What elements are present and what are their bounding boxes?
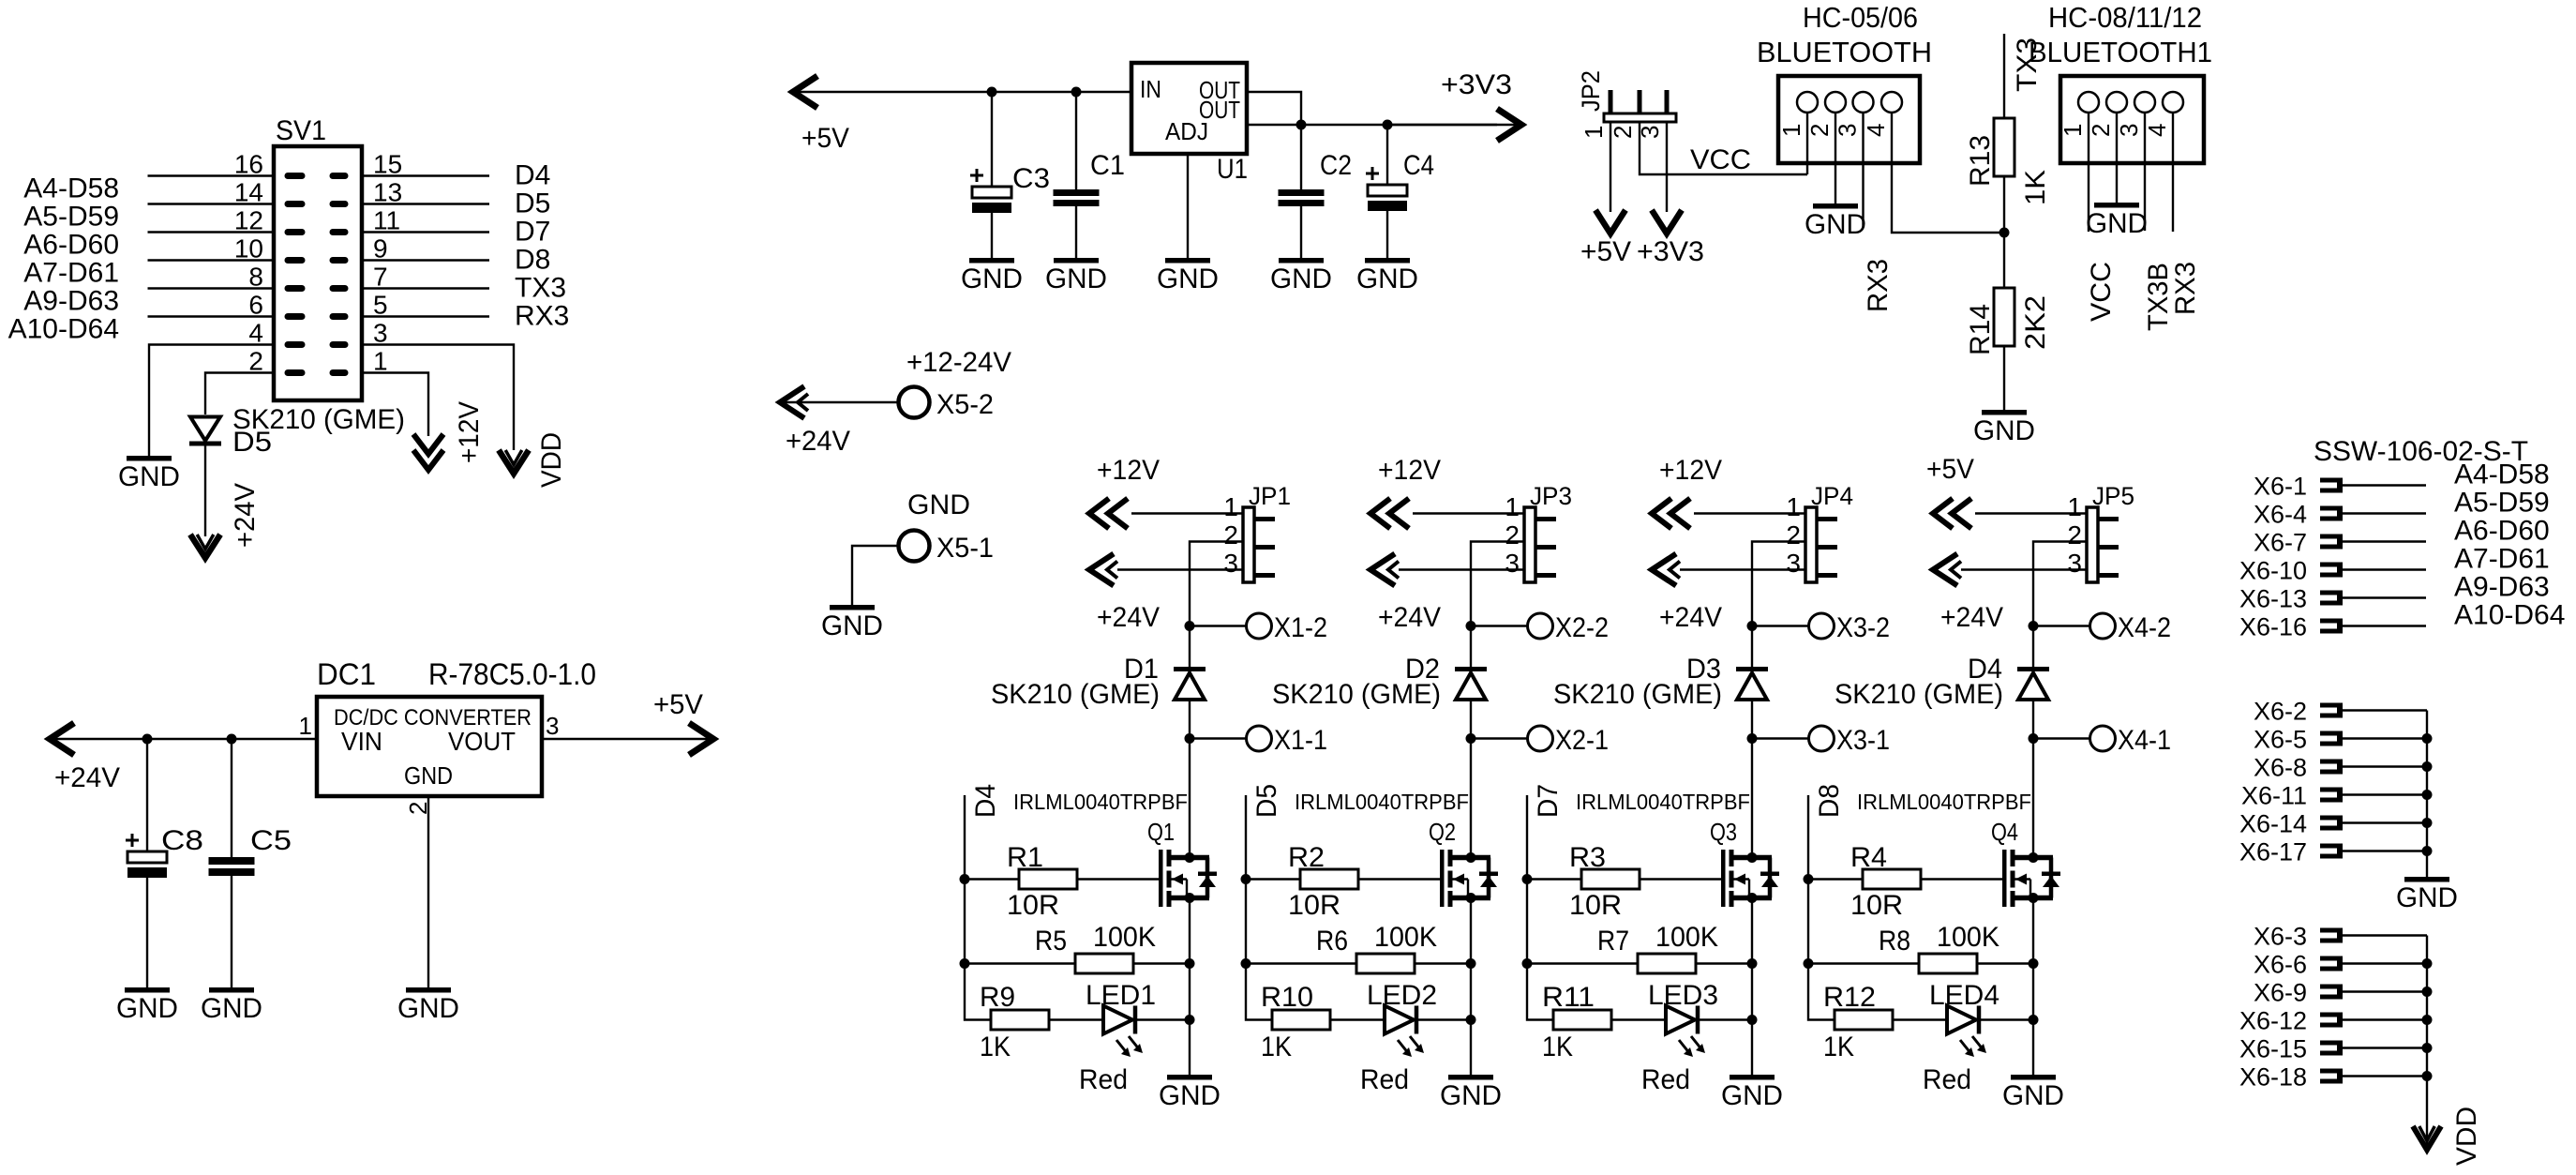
wire X6-15 (2343, 1047, 2427, 1048)
svg-text:10R: 10R (1288, 890, 1340, 921)
wire JP1 pin 3 to +24V (1117, 568, 1243, 570)
svg-text:X6-9: X6-9 (2254, 979, 2307, 1007)
wire X3-1 to Q3 drain (1751, 739, 1753, 858)
node junction X1-1 (1185, 733, 1195, 744)
node junction X6-18 on VDD bus (2422, 1071, 2433, 1081)
wire X6-14 (2343, 821, 2427, 823)
SV1 pin 8 pad (285, 285, 306, 292)
svg-text:A9-D63: A9-D63 (23, 286, 119, 317)
BLUETOOTH pin 1 circle (1797, 92, 1818, 113)
svg-text:LED3: LED3 (1648, 980, 1718, 1011)
svg-text:1K: 1K (1261, 1032, 1292, 1062)
BLUETOOTH pin 4 circle (1881, 92, 1902, 113)
wire R6 to source column (1415, 962, 1471, 964)
svg-text:X6-5: X6-5 (2254, 726, 2307, 754)
node junction LED4/source (2029, 1015, 2039, 1025)
jumper JP1 body (1243, 507, 1254, 582)
resistor R7 (1638, 954, 1696, 973)
wire SV1 pin 6 (148, 315, 275, 317)
wire X6-2 (2343, 709, 2427, 711)
svg-text:12: 12 (234, 206, 263, 235)
power arrow +24V (channel 1) (1089, 554, 1114, 586)
power arrow +24V (below D5) (190, 535, 220, 558)
wire gate bus to R5 (965, 962, 1075, 964)
wire JP1 pin 1 to +12V (1131, 512, 1243, 514)
svg-text:13: 13 (373, 178, 402, 207)
diode D5 (190, 417, 220, 442)
wire X1-2 to diode D1 (1189, 626, 1191, 669)
svg-text:GND: GND (1805, 209, 1866, 240)
svg-text:GND: GND (2002, 1080, 2064, 1111)
resistor R4 (1863, 869, 1921, 889)
wire BLUETOOTH1 pin 3 stub TX3B (2144, 113, 2146, 231)
wire gate bus to R1 (965, 878, 1019, 880)
node junction X6-14 on GND bus (2422, 818, 2433, 828)
power arrow +24V (channel 4) (1933, 554, 1957, 586)
wire to terminal X4-2 (2033, 625, 2090, 626)
power arrow +3V3 (JP2) (1652, 210, 1682, 233)
svg-text:+24V: +24V (786, 426, 850, 457)
svg-text:+12-24V: +12-24V (906, 347, 1011, 378)
svg-text:3: 3 (2067, 549, 2082, 578)
ground (C1) (1054, 258, 1099, 264)
connector pin X6-8 (2320, 760, 2340, 764)
svg-text:X6-18: X6-18 (2239, 1063, 2307, 1092)
svg-text:VIN: VIN (341, 727, 382, 756)
svg-text:GND: GND (1159, 1080, 1221, 1111)
svg-text:Q3: Q3 (1710, 818, 1737, 846)
LED LED3 (1666, 1006, 1695, 1034)
svg-text:X6-17: X6-17 (2239, 838, 2307, 866)
node junction gate/R8 (1804, 958, 1814, 969)
terminal X4-2 circle (2090, 613, 2116, 639)
connector BLUETOOTH1 body (2060, 76, 2204, 163)
wire gate bus to R4 (1808, 878, 1863, 880)
wire to terminal X4-1 (2033, 737, 2090, 739)
ground (X5-1) (830, 605, 875, 610)
svg-text:SK210 (GME): SK210 (GME) (1553, 679, 1722, 710)
jumper JP5 pin 1 stub (2098, 517, 2119, 521)
svg-text:X6-2: X6-2 (2254, 698, 2307, 726)
svg-text:ADJ: ADJ (1165, 117, 1208, 145)
SV1 pin 1 pad (330, 369, 349, 376)
svg-text:+3V3: +3V3 (1441, 69, 1512, 100)
wire Q2 source down (1470, 898, 1472, 1076)
wire X6-18 (2343, 1075, 2427, 1077)
wire R3 to Q3 gate (1640, 878, 1721, 880)
node junction R6/source (1466, 958, 1476, 969)
svg-text:GND: GND (1270, 264, 1332, 294)
svg-text:8: 8 (248, 263, 263, 292)
SV1 pin 16 pad (285, 173, 306, 179)
diode D2 (1455, 667, 1487, 671)
svg-text:+24V: +24V (230, 483, 261, 548)
wire Q3 source down (1751, 898, 1753, 1076)
wire to terminal X3-1 (1752, 737, 1809, 739)
ground (BLUETOOTH pin 2) (1813, 203, 1858, 209)
power arrow +5V (JP2) (1595, 210, 1625, 233)
resistor R13 (1994, 118, 2014, 176)
wire to terminal X3-2 (1752, 625, 1809, 626)
svg-text:GND: GND (397, 993, 459, 1024)
svg-text:+3V3: +3V3 (1637, 236, 1704, 267)
terminal X5-2 arrow +24V (780, 386, 804, 418)
wire BLUETOOTH1 pin 2 to ground (2116, 113, 2118, 203)
svg-text:6: 6 (248, 291, 263, 320)
wire X6-13 (2343, 596, 2426, 598)
svg-text:2: 2 (1609, 126, 1637, 139)
resistor R12 (1835, 1010, 1893, 1030)
svg-text:R2: R2 (1288, 842, 1325, 873)
capacitor C3 (polarized) (991, 92, 993, 187)
svg-text:A7-D61: A7-D61 (2454, 544, 2550, 575)
svg-text:D7: D7 (515, 217, 550, 248)
wire LED3 cathode to source column (1700, 1018, 1752, 1020)
wire LED1 cathode to source column (1137, 1018, 1190, 1020)
node junction gate/R6 (1241, 958, 1251, 969)
svg-text:X3-1: X3-1 (1836, 725, 1890, 756)
wire R10 to LED2 (1330, 1018, 1385, 1020)
node junction at C8 (142, 734, 153, 745)
node junction at C3 (987, 87, 997, 98)
connector pin X6-18 (2320, 1069, 2340, 1074)
wire X6-3 (2343, 934, 2427, 936)
svg-text:X6-8: X6-8 (2254, 754, 2307, 782)
svg-text:Q4: Q4 (1991, 818, 2018, 846)
svg-text:VCC: VCC (1690, 144, 1751, 175)
connector pin X6-17 (2320, 844, 2340, 849)
svg-text:+12V: +12V (1378, 455, 1441, 486)
svg-text:X6-15: X6-15 (2239, 1035, 2307, 1063)
wire +24V to DC1 VIN (50, 738, 317, 740)
SV1 pin 4 pad (285, 341, 306, 348)
terminal X1-2 circle (1247, 613, 1272, 639)
capacitor C8 (polarized) (146, 739, 148, 851)
jumper JP2 pin 1 stub (1609, 90, 1613, 113)
wire SV1 pin 3 to VDD (362, 345, 514, 451)
svg-text:15: 15 (373, 150, 402, 179)
BLUETOOTH1 pin 4 circle (2163, 92, 2183, 113)
wire SV1 pin 2 to diode D5 (205, 373, 274, 415)
jumper JP2 pin 3 stub (1665, 90, 1670, 113)
wire X6-6 (2343, 962, 2427, 964)
svg-text:GND: GND (907, 490, 970, 520)
wire X6-12 (2343, 1018, 2427, 1020)
diode D1 (1174, 667, 1206, 671)
node junction X6-9 on VDD bus (2422, 987, 2433, 997)
svg-text:C2: C2 (1320, 150, 1352, 181)
svg-text:IRLML0040TRPBF: IRLML0040TRPBF (1295, 790, 1469, 814)
wire JP5 pin 1 to +5V (1975, 512, 2087, 514)
svg-text:+12V: +12V (454, 401, 485, 463)
connector pin X6-6 (2320, 957, 2340, 961)
LED LED2 emission arrows (1398, 1040, 1409, 1054)
svg-text:11: 11 (373, 206, 400, 235)
wire JP1 pin 2 down (1190, 542, 1243, 626)
svg-text:R9: R9 (980, 982, 1015, 1013)
svg-text:R1: R1 (1007, 842, 1043, 873)
wire SV1 pin 13 (362, 203, 489, 204)
node junction R8/source (2029, 958, 2039, 969)
wire SV1 pin 7 (362, 287, 489, 289)
node junction at C4 (1383, 120, 1393, 130)
svg-text:X4-1: X4-1 (2118, 725, 2171, 756)
svg-text:D7: D7 (1533, 784, 1564, 818)
svg-text:GND: GND (2396, 882, 2458, 913)
svg-text:R12: R12 (1823, 982, 1876, 1013)
svg-text:10R: 10R (1007, 890, 1059, 921)
BLUETOOTH1 pin 2 circle (2106, 92, 2127, 113)
transistor Q2 (n-channel MOSFET) (1440, 850, 1445, 907)
wire R13 to R14 (2003, 176, 2005, 288)
resistor R11 (1553, 1010, 1611, 1030)
wire BLUETOOTH pin 2 to ground (1835, 113, 1836, 203)
jumper JP5 pin 3 stub (2098, 573, 2119, 578)
jumper JP4 pin 1 stub (1817, 517, 1837, 521)
svg-text:GND: GND (1721, 1080, 1783, 1111)
svg-text:GND: GND (2086, 208, 2148, 239)
node junction X2-2 (1466, 621, 1476, 631)
wire LED2 cathode to source column (1418, 1018, 1471, 1020)
power arrow +5V (DC1 output) (689, 723, 713, 755)
ground (SV1 pin 4) (127, 456, 172, 461)
net stub D4 (gate bus) (964, 795, 966, 964)
svg-text:1: 1 (373, 347, 388, 376)
svg-text:3: 3 (1223, 549, 1238, 578)
connector pin X6-2 (2320, 703, 2340, 708)
jumper JP1 pin 1 stub (1254, 517, 1275, 521)
ground (R14) (1982, 410, 2027, 415)
node junction gate/R2 (1241, 874, 1251, 884)
wire R14 to ground (2003, 345, 2005, 410)
terminal X2-1 circle (1528, 726, 1553, 751)
svg-text:VCC: VCC (2086, 262, 2117, 322)
resistor R14 (1994, 288, 2014, 346)
svg-text:1: 1 (1223, 492, 1238, 521)
svg-text:X6-1: X6-1 (2254, 473, 2307, 501)
svg-text:A5-D59: A5-D59 (23, 202, 119, 233)
wire gate bus corner to R9 (965, 964, 991, 1020)
diode D3 (1736, 667, 1768, 671)
svg-text:SK210 (GME): SK210 (GME) (1272, 679, 1441, 710)
svg-text:1: 1 (299, 712, 312, 740)
power arrow +3V3 (1497, 109, 1521, 141)
jumper JP4 pin 2 stub (1817, 545, 1837, 550)
svg-text:X6-16: X6-16 (2239, 613, 2307, 641)
svg-text:2: 2 (2067, 520, 2082, 550)
ground (channel 3) (1730, 1075, 1775, 1080)
svg-text:1: 1 (2059, 124, 2087, 137)
svg-text:10R: 10R (1850, 890, 1903, 921)
connector SV1 body (274, 146, 362, 400)
wire Q4 source down (2032, 898, 2034, 1076)
connector pin X6-4 (2320, 506, 2340, 511)
node junction X6-6 on VDD bus (2422, 958, 2433, 969)
node junction X2-1 (1466, 733, 1476, 744)
node junction RX of divider (1999, 228, 2010, 238)
svg-text:RX3: RX3 (515, 301, 569, 332)
svg-text:A4-D58: A4-D58 (23, 173, 119, 204)
wire SV1 pin 12 (148, 231, 275, 233)
svg-text:X3-2: X3-2 (1836, 612, 1890, 643)
wire X6-17 (2343, 850, 2427, 851)
wire JP2 pin 1 to +5V (1610, 122, 1611, 212)
ground (C8) (125, 987, 170, 993)
svg-text:D5: D5 (1251, 784, 1282, 818)
SV1 pin 2 pad (285, 369, 306, 376)
transistor Q3 (n-channel MOSFET) (1721, 850, 1726, 907)
svg-text:2: 2 (2087, 124, 2115, 137)
wire JP4 pin 3 to +24V (1680, 568, 1805, 570)
wire X6-9 (2343, 990, 2427, 992)
svg-text:R3: R3 (1569, 842, 1606, 873)
svg-text:VOUT: VOUT (448, 727, 516, 756)
node junction X4-2 (2029, 621, 2039, 631)
svg-text:HC-05/06: HC-05/06 (1803, 1, 1918, 34)
wire R4 to Q4 gate (1921, 878, 2002, 880)
power arrow +24V (channel 3) (1652, 554, 1676, 586)
node junction R5/source (1185, 958, 1195, 969)
ground (X6 GND bus) (2404, 877, 2449, 882)
svg-text:1K: 1K (2020, 170, 2051, 205)
svg-text:+5V: +5V (653, 689, 703, 720)
SV1 pin 12 pad (285, 229, 306, 235)
svg-text:100K: 100K (1655, 922, 1718, 953)
svg-text:D5: D5 (515, 188, 550, 219)
svg-text:LED1: LED1 (1086, 980, 1156, 1011)
terminal X5-1 circle (899, 531, 930, 562)
svg-text:X2-1: X2-1 (1555, 725, 1609, 756)
svg-text:X5-2: X5-2 (936, 389, 994, 420)
connector pin X6-13 (2320, 591, 2340, 595)
LED LED3 emission arrows (1679, 1040, 1690, 1054)
wire diode D2 to X2-1 (1470, 700, 1472, 739)
svg-text:3: 3 (1505, 549, 1520, 578)
power arrow +12V (channel 2, double chevron) (1370, 499, 1390, 529)
svg-text:X6-10: X6-10 (2239, 557, 2307, 585)
node junction gate/R7 (1522, 958, 1533, 969)
wire SV1 pin 15 (362, 174, 489, 176)
svg-text:X6-6: X6-6 (2254, 951, 2307, 979)
terminal X4-1 circle (2090, 726, 2116, 751)
svg-text:+24V: +24V (54, 762, 120, 793)
terminal X3-1 circle (1809, 726, 1835, 751)
ground (C2) (1279, 258, 1324, 264)
wire gate bus to R2 (1246, 878, 1300, 880)
svg-text:1: 1 (1505, 492, 1520, 521)
svg-text:X6-14: X6-14 (2239, 810, 2307, 838)
power arrow +5V (top rail) (793, 76, 817, 108)
SV1 pin 11 pad (330, 229, 349, 235)
diode D4 (2017, 667, 2049, 671)
power arrow +24V (channel 2) (1370, 554, 1395, 586)
ground (BLUETOOTH1 pin 2) (2094, 203, 2139, 208)
wire R1 to Q1 gate (1077, 878, 1159, 880)
svg-text:C3: C3 (1012, 163, 1050, 194)
wire U1 ADJ to ground (1187, 154, 1189, 258)
capacitor C4 (polarized) (1386, 125, 1388, 185)
node junction gate/R3 (1522, 874, 1533, 884)
svg-text:1: 1 (1777, 124, 1805, 137)
wire X6-10 (2343, 568, 2426, 570)
svg-text:GND: GND (821, 610, 883, 641)
svg-text:BLUETOOTH1: BLUETOOTH1 (2029, 36, 2212, 68)
svg-text:10R: 10R (1569, 890, 1622, 921)
svg-text:2: 2 (1505, 520, 1520, 550)
wire R9 to LED1 (1049, 1018, 1103, 1020)
wire U1 OUT2 to +3V3 (1247, 124, 1497, 126)
svg-text:R13: R13 (1965, 135, 1996, 187)
node junction X3-2 (1747, 621, 1758, 631)
node junction LED3/source (1747, 1015, 1758, 1025)
wire X6-11 (2343, 793, 2427, 795)
svg-text:1: 1 (1580, 126, 1608, 139)
svg-text:3: 3 (546, 712, 559, 740)
svg-text:100K: 100K (1937, 922, 1999, 953)
wire R7 to source column (1696, 962, 1752, 964)
LED LED4 emission arrows (1960, 1040, 1971, 1054)
svg-text:16: 16 (234, 150, 263, 179)
wire SV1 pin 14 (148, 203, 275, 204)
wire JP3 pin 1 to +12V (1413, 512, 1524, 514)
svg-text:X6-11: X6-11 (2241, 782, 2307, 810)
svg-text:A7-D61: A7-D61 (23, 258, 119, 289)
svg-text:+5V: +5V (801, 123, 849, 154)
jumper JP3 body (1524, 507, 1535, 582)
BLUETOOTH1 pin 3 circle (2134, 92, 2155, 113)
svg-text:C4: C4 (1403, 150, 1434, 181)
wire X1-1 to Q1 drain (1189, 739, 1191, 858)
svg-text:A10-D64: A10-D64 (2454, 600, 2565, 631)
ground (channel 4) (2011, 1075, 2056, 1080)
wire SV1 pin 11 (362, 231, 489, 233)
svg-text:GND: GND (1045, 264, 1107, 294)
wire gate bus to R3 (1527, 878, 1581, 880)
svg-text:IRLML0040TRPBF: IRLML0040TRPBF (1576, 790, 1750, 814)
net stub D7 (gate bus) (1526, 795, 1528, 964)
wire GND bus (X6) (2426, 711, 2428, 878)
svg-text:7: 7 (373, 263, 388, 292)
wire +5V rail to U1 IN (793, 91, 1131, 93)
svg-text:GND: GND (1157, 264, 1219, 294)
jumper JP5 body (2087, 507, 2098, 582)
svg-text:X4-2: X4-2 (2118, 612, 2171, 643)
jumper JP2 body (1604, 113, 1676, 122)
svg-text:GND: GND (1440, 1080, 1502, 1111)
jumper JP3 pin 3 stub (1535, 573, 1556, 578)
SV1 pin 7 pad (330, 285, 349, 292)
svg-text:RX3: RX3 (2170, 262, 2201, 315)
node junction X1-2 (1185, 621, 1195, 631)
connector pin X6-9 (2320, 985, 2340, 989)
svg-text:Red: Red (1360, 1064, 1409, 1095)
wire JP4 pin 2 down (1752, 542, 1805, 626)
svg-text:1: 1 (1786, 492, 1801, 521)
svg-text:X6-13: X6-13 (2239, 585, 2307, 613)
transistor Q1 (n-channel MOSFET) (1159, 850, 1163, 907)
svg-text:1K: 1K (1542, 1032, 1573, 1062)
LED LED1 (1103, 1006, 1132, 1034)
connector pin X6-10 (2320, 563, 2340, 567)
power arrow +24V (DC1 input) (50, 723, 74, 755)
wire R12 to LED4 (1893, 1018, 1947, 1020)
resistor R1 (1019, 869, 1077, 889)
terminal X2-2 circle (1528, 613, 1553, 639)
ground (channel 1) (1167, 1075, 1212, 1080)
capacitor C1 (1075, 92, 1077, 189)
jumper JP2 pin 2 stub (1638, 90, 1642, 113)
node junction at C2 (1296, 120, 1307, 130)
